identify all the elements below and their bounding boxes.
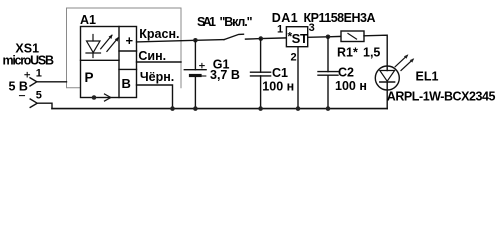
wire black: to bottom rail [137,85,173,109]
svg-text:"Вкл.": "Вкл." [220,15,253,29]
DA1 pin3 wire [308,35,341,38]
node: pin2 to rail [296,106,301,111]
svg-text:Син.: Син. [138,49,166,63]
XS1 minus sign [20,95,25,97]
node: battery to rail [193,106,198,111]
battery G1 [194,40,196,69]
svg-text:1,5: 1,5 [363,46,380,60]
switch SA1 lever [224,34,244,39]
svg-text:C1: C1 [272,66,288,80]
wire: switch to DA1 [246,38,287,39]
svg-text:100 н: 100 н [335,79,367,93]
svg-text:R1*: R1* [337,46,358,60]
wire pin1 to frame [37,81,67,83]
wire blue: ends at frame [137,61,182,63]
resistor R1 [341,31,364,42]
svg-text:C2: C2 [338,66,354,80]
svg-text:5 В: 5 В [9,80,28,94]
voltage regulator DA1 box [286,27,307,47]
svg-text:+: + [126,33,134,48]
A1 right col divider 1 [119,50,137,52]
A1 right col divider 2 [119,68,137,70]
solar LED symbol in A1 [86,35,101,58]
wire R1 to LED [364,35,387,70]
XS1 plus sign [25,72,30,77]
wire red: top rail from A1 to switch [137,40,225,42]
svg-text:P: P [85,70,94,85]
svg-text:2: 2 [291,52,297,64]
battery minus sign [202,75,206,77]
svg-text:1: 1 [36,68,42,80]
dot and arrow on A1 bottom edge [92,95,97,100]
svg-text:ST: ST [292,31,308,46]
svg-text:Красн.: Красн. [139,27,179,41]
svg-text:Чёрн.: Чёрн. [140,70,174,84]
node: C1 to rail [258,106,263,111]
arrows of LED symbol [101,35,118,51]
A1 inner divider vertical [118,27,120,98]
DA1 pin2 wire [297,47,299,109]
svg-text:В: В [122,76,131,91]
svg-text:3,7 В: 3,7 В [210,68,240,82]
svg-text:3: 3 [309,22,315,34]
module frame A1 (thin gray outline) [67,8,182,88]
LED EL1 [375,66,399,90]
XS1 pin 5 contact [30,99,37,107]
capacitor C1 [260,39,262,73]
node: switch left junction [193,38,198,43]
bottom rail [52,108,387,110]
node: switch right junction [259,36,264,41]
capacitor C2 [327,37,329,72]
A1 box [81,27,137,98]
svg-text:1: 1 [277,24,283,36]
XS1 pin 1 contact [30,78,37,86]
svg-text:microUSB: microUSB [3,54,55,68]
svg-text:5: 5 [36,90,42,102]
svg-text:DA1: DA1 [272,11,298,25]
node: black wire to rail [170,106,175,111]
svg-text:A1: A1 [80,13,96,27]
node: C2 to rail [326,106,331,111]
svg-text:100 н: 100 н [262,80,294,94]
LED arrows [395,56,407,67]
svg-text:SA1: SA1 [197,15,216,29]
svg-text:ARPL-1W-BCX2345: ARPL-1W-BCX2345 [387,89,496,103]
battery plus sign [200,63,205,67]
wire pin5 to bottom rail [37,103,52,108]
A1 left cell divider [81,59,120,61]
svg-text:EL1: EL1 [416,70,439,84]
node: C2 top junction [326,35,331,40]
